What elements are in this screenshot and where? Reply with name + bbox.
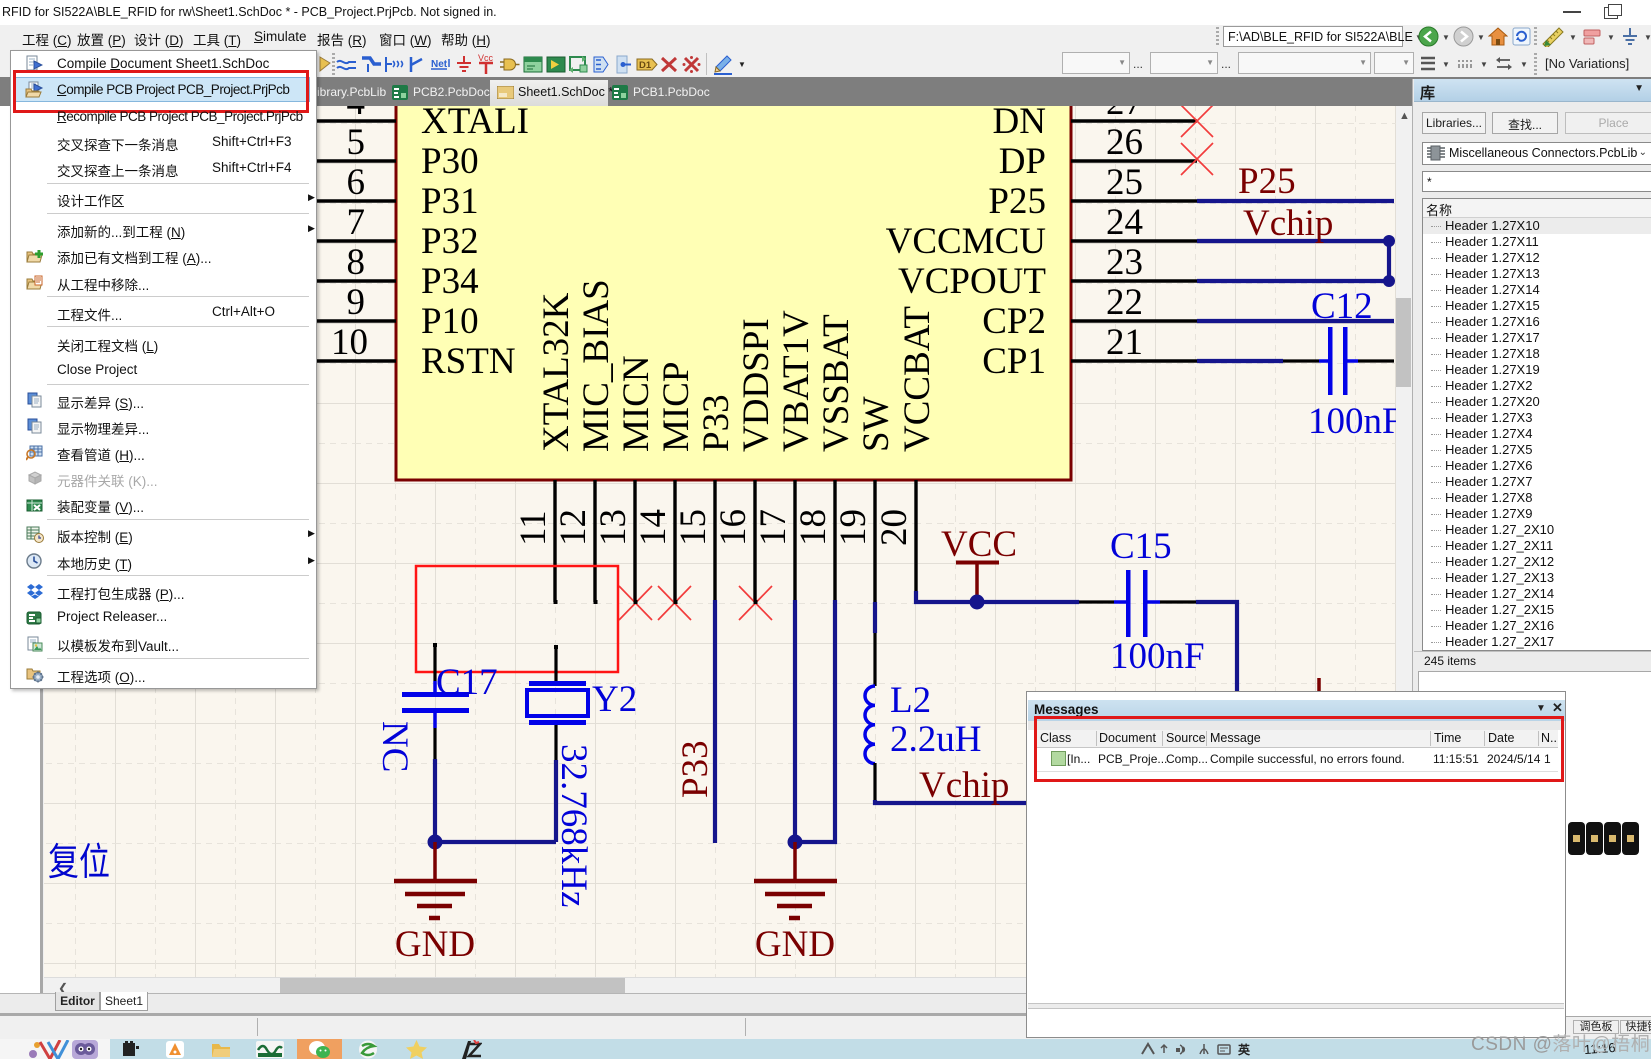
red highlight rectangle	[1034, 716, 1564, 782]
bottom pins group	[555, 480, 916, 602]
owl icon	[72, 1040, 98, 1059]
svg-text:GND: GND	[395, 924, 475, 965]
wire C17 to GND1	[433, 759, 437, 842]
align tool	[1582, 28, 1602, 46]
svg-text:VSSBAT: VSSBAT	[816, 314, 857, 452]
library combo	[1422, 142, 1651, 165]
capacitor C15	[1079, 570, 1196, 637]
svg-text:P25: P25	[988, 181, 1046, 222]
no-ERC marker pin 13	[619, 586, 652, 620]
selection rectangle (red)	[416, 566, 618, 672]
svg-text:DP: DP	[999, 141, 1046, 182]
crystal Y2	[527, 681, 588, 760]
svg-text:Y2: Y2	[592, 679, 637, 720]
junction VCC rail	[970, 595, 985, 610]
menu bar	[0, 25, 1651, 49]
svg-text:11: 11	[513, 510, 554, 546]
menu item icon: project options	[26, 666, 44, 683]
pin 21 CP1 wire	[1071, 359, 1197, 362]
icon bus entry	[408, 55, 428, 74]
svg-text:18: 18	[793, 509, 834, 546]
svg-text:100nF: 100nF	[1110, 636, 1205, 677]
wire vertical link at canvas edge	[1387, 241, 1391, 281]
svg-text:Vchip: Vchip	[919, 765, 1009, 806]
icon VCC port	[476, 53, 496, 76]
pin tip dots	[433, 600, 758, 649]
menu item icon: component links (disabled)	[26, 471, 44, 488]
right pins group	[1071, 121, 1197, 361]
right pin names	[886, 101, 1046, 382]
menu item icon: add existing	[26, 248, 44, 265]
245 items	[1414, 651, 1651, 669]
svg-text:NC: NC	[374, 721, 415, 772]
red highlight rectangle	[13, 70, 309, 113]
svg-text:P31: P31	[421, 181, 479, 222]
footprint preview area	[1418, 671, 1651, 1017]
icon sheet symbol	[523, 56, 543, 73]
pin 9 P10 wire	[270, 319, 396, 322]
capacitor C12 on pin21 wire	[1197, 327, 1394, 395]
watermark	[1471, 1029, 1650, 1056]
menu item icon: project releaser	[26, 610, 44, 627]
swap arrows icon	[1495, 56, 1513, 72]
svg-text:P32: P32	[421, 221, 479, 262]
menu item icon: compile pcb project	[25, 81, 44, 99]
editor tabs row	[0, 993, 1412, 1014]
svg-text:14: 14	[633, 509, 674, 546]
status bar	[0, 1013, 1651, 1039]
icon sheet entry	[546, 56, 566, 73]
tray icons	[1140, 1042, 1260, 1057]
capacitor C17	[402, 681, 469, 759]
Messages panel	[1026, 691, 1566, 1038]
taskbar icon folder	[211, 1041, 231, 1058]
pin 23 VCPOUT wire	[1071, 279, 1197, 282]
left white strip	[0, 106, 40, 993]
dropdown menu	[10, 50, 317, 689]
title bar	[0, 0, 1651, 25]
toolbar grip	[332, 53, 335, 75]
svg-text:CP1: CP1	[982, 341, 1046, 382]
measure tool	[1542, 27, 1564, 47]
wire VCC rail pin20 to C15	[916, 591, 1079, 602]
nav toolbar (row1 right, in menubar band)	[1212, 25, 1651, 49]
buttons Libraries / 查找 / Place	[1422, 112, 1486, 134]
title bar	[1028, 700, 1565, 721]
wire pin17 to GND	[793, 600, 797, 842]
svg-text:21: 21	[1106, 322, 1143, 363]
svg-text:MICN: MICN	[616, 355, 657, 452]
svg-text:20: 20	[874, 509, 915, 546]
pin 5 P30 wire	[270, 159, 396, 162]
svg-text:Vcc: Vcc	[478, 53, 494, 63]
wire net P33 pin15	[713, 600, 717, 843]
svg-text:8: 8	[347, 242, 366, 283]
wire Y2 to GND rail	[554, 760, 558, 842]
IC U? body	[396, 40, 1071, 480]
svg-text:P10: P10	[421, 301, 479, 342]
pin 11 wire	[553, 480, 556, 602]
pin 15 wire	[713, 480, 716, 600]
active tab Sheet1	[490, 80, 608, 106]
svg-text:VCCMCU: VCCMCU	[886, 221, 1046, 262]
icon device sheet	[568, 55, 589, 74]
menu item icon: remove from project	[26, 275, 44, 292]
bottom tabs 调色板/快捷键	[1573, 1020, 1619, 1034]
chip icon	[1427, 145, 1445, 161]
icon compile mask	[682, 56, 701, 73]
PCB1 tab icon	[612, 85, 628, 100]
line width icon	[1420, 56, 1436, 72]
icon place part	[499, 57, 521, 72]
pin 16 wire	[753, 480, 756, 602]
pin 22 CP2 wire	[1071, 319, 1197, 322]
pin 26 DP wire	[1071, 159, 1197, 162]
pin 12 wire	[593, 480, 596, 602]
svg-text:2.2uH: 2.2uH	[890, 719, 981, 760]
wire GND rail horizontal	[435, 840, 556, 844]
wire net P25	[1197, 201, 1394, 321]
panel header 库	[1414, 79, 1651, 102]
forward button	[1453, 26, 1474, 47]
document tab bar	[0, 77, 1651, 106]
icon harness connector	[591, 55, 612, 74]
svg-text:19: 19	[833, 509, 874, 546]
pin 17 wire	[793, 480, 796, 600]
icon no-ERC	[660, 56, 678, 73]
highlighted row	[15, 77, 310, 102]
junction at GND2	[788, 835, 803, 850]
right Libraries panel	[1412, 79, 1651, 1013]
right pin numbers	[1106, 82, 1143, 363]
filter box	[1422, 171, 1651, 192]
partially covered icon at menu edge	[318, 55, 332, 73]
svg-text:9: 9	[347, 282, 366, 323]
pin 8 P34 wire	[270, 279, 396, 282]
svg-text:D1: D1	[639, 60, 652, 71]
svg-text:C17: C17	[436, 662, 498, 703]
pin 18 wire	[833, 480, 836, 600]
svg-text:32.768kHz: 32.768kHz	[553, 744, 594, 907]
svg-text:XTALI: XTALI	[421, 106, 529, 142]
header footprint preview	[1568, 822, 1640, 855]
toolbar row	[0, 49, 1651, 77]
svg-text:L2: L2	[890, 680, 931, 721]
bottom pin numbers	[513, 509, 915, 546]
left pin names	[421, 101, 529, 382]
svg-text:P34: P34	[421, 261, 479, 302]
pin 19 wire	[873, 480, 876, 602]
junction at link top	[1383, 235, 1395, 247]
no-ERC marker pin 14	[658, 586, 691, 620]
svg-text:VCCBAT: VCCBAT	[897, 306, 938, 452]
wire pin22	[1197, 319, 1394, 323]
pin 13 wire	[633, 480, 636, 602]
taskbar	[0, 1039, 1651, 1059]
left pin numbers	[331, 82, 368, 363]
icon place bus	[360, 55, 382, 74]
wire pin18 elbow to GND	[795, 600, 835, 842]
menu item icon: assembly variants	[26, 497, 44, 514]
menu item icon: dropbox	[26, 583, 44, 600]
window min button	[1563, 11, 1581, 13]
svg-text:P33: P33	[675, 740, 716, 798]
svg-text:GND: GND	[755, 924, 835, 965]
back button	[1418, 26, 1439, 47]
svg-text:23: 23	[1106, 242, 1143, 283]
icon differential pair	[636, 57, 660, 72]
bottom details pane	[1028, 1003, 1564, 1009]
table header row	[1036, 730, 1558, 748]
svg-text:MIC_BIAS: MIC_BIAS	[576, 279, 617, 452]
junction at link bottom	[1383, 275, 1395, 287]
no-ERC marker pin 26	[1181, 143, 1213, 175]
schematic canvas	[44, 106, 1396, 977]
pin 25 P25 wire	[1071, 199, 1197, 202]
svg-text:SW: SW	[856, 396, 897, 452]
no-ERC marker pin 27	[619, 105, 1213, 620]
svg-text:26: 26	[1106, 122, 1143, 163]
PCB2 tab icon	[392, 85, 408, 100]
svg-text:MICP: MICP	[656, 362, 697, 452]
power port VCC	[941, 524, 1017, 602]
icon GND port	[455, 55, 473, 75]
svg-text:16: 16	[713, 509, 754, 546]
horizontal scrollbar	[44, 977, 1396, 994]
taskbar icon dark	[122, 1041, 140, 1058]
svg-text:5: 5	[347, 122, 366, 163]
svg-text:4: 4	[347, 106, 366, 123]
svg-text:VBAT1V: VBAT1V	[776, 310, 817, 452]
toolbar separator	[706, 53, 707, 75]
menu item icon: version control	[26, 526, 44, 543]
refresh button	[1512, 27, 1531, 46]
svg-text:C15: C15	[1110, 526, 1172, 567]
no-ERC marker pin 16	[739, 586, 772, 620]
clock 11:16	[1584, 1040, 1617, 1057]
pin 6 P31 wire	[270, 199, 396, 202]
taskbar icon wechat	[297, 1039, 342, 1059]
menu item icon: local history	[26, 553, 44, 570]
svg-text:VDDSPI: VDDSPI	[736, 318, 777, 452]
menu item icon: publish to vault	[26, 636, 44, 653]
icon signal harness	[384, 55, 406, 74]
menu item icon: compile document	[26, 55, 43, 72]
svg-text:27: 27	[1106, 106, 1143, 123]
wire net Vchip bottom	[875, 800, 1026, 803]
pin 14 wire	[673, 480, 676, 602]
svg-text:RSTN: RSTN	[421, 341, 516, 382]
svg-text:P25: P25	[1238, 161, 1296, 202]
svg-text:P30: P30	[421, 141, 479, 182]
ground GND1	[394, 842, 477, 918]
svg-text:22: 22	[1106, 282, 1143, 323]
crystal Y2 stub	[554, 645, 557, 681]
wire pin23	[1197, 279, 1394, 283]
icon pencil tool	[712, 54, 734, 75]
taskbar icon star	[406, 1040, 427, 1059]
svg-text:12: 12	[553, 509, 594, 546]
svg-text:24: 24	[1106, 202, 1143, 243]
menu item icon: view channels	[26, 444, 44, 461]
svg-text:Vchip: Vchip	[1243, 203, 1333, 244]
icon place wire	[336, 57, 358, 73]
capacitor C17 stub	[433, 643, 436, 681]
taskbar icon AZ	[460, 1040, 482, 1059]
svg-text:10: 10	[331, 322, 368, 363]
svg-text:13: 13	[593, 509, 634, 546]
dashed line icon	[1457, 56, 1473, 72]
icon net label	[430, 57, 454, 72]
left pins group	[270, 121, 396, 361]
svg-text:17: 17	[753, 509, 794, 546]
right row2: combos	[1062, 52, 1130, 74]
menu item icon: show physical differences	[26, 418, 44, 435]
logo V	[28, 1040, 72, 1059]
partial power symbol above panel	[1317, 678, 1321, 692]
svg-text:XTAL32K: XTAL32K	[536, 292, 577, 452]
ground tool	[1620, 27, 1640, 47]
svg-text:100nF: 100nF	[1308, 401, 1396, 442]
taskbar icon pcweb	[256, 1041, 284, 1058]
wire C15 right down to panel	[1196, 602, 1237, 692]
svg-text:7: 7	[347, 202, 366, 243]
svg-text:25: 25	[1106, 162, 1143, 203]
svg-text:CP2: CP2	[982, 301, 1046, 342]
message row	[1036, 747, 1558, 772]
svg-text:DN: DN	[993, 106, 1046, 142]
junction at GND1	[428, 835, 443, 850]
pin 24 VCCMCU wire	[1071, 239, 1197, 242]
svg-text:VCC: VCC	[941, 524, 1017, 565]
pin 4 XTALI wire	[270, 119, 396, 122]
svg-text:6: 6	[347, 162, 366, 203]
bottom pin names	[536, 279, 938, 452]
taskbar icon sogou	[358, 1040, 378, 1059]
pin 10 RSTN wire	[270, 359, 396, 362]
svg-text:VCPOUT: VCPOUT	[898, 261, 1046, 302]
window restore button	[1604, 7, 1618, 19]
ground GND2	[754, 842, 837, 918]
pin 20 wire	[914, 480, 917, 593]
svg-text:复位: 复位	[48, 842, 110, 884]
pin 7 P32 wire	[270, 239, 396, 242]
vertical scrollbar	[1396, 106, 1412, 977]
svg-text:P33: P33	[696, 394, 737, 452]
svg-text:15: 15	[673, 509, 714, 546]
svg-text:C12: C12	[1311, 286, 1373, 327]
home button	[1488, 27, 1508, 46]
inductor L2 chain on pin19	[865, 602, 875, 800]
taskbar icon orange	[166, 1041, 184, 1058]
pin 27 DN wire	[1071, 119, 1197, 122]
svg-text:英: 英	[1238, 1042, 1251, 1057]
icon harness entry	[615, 55, 633, 74]
menu item icon: show differences	[26, 392, 44, 409]
list box	[1422, 198, 1651, 651]
wire net Vchip pin24	[1197, 239, 1394, 243]
